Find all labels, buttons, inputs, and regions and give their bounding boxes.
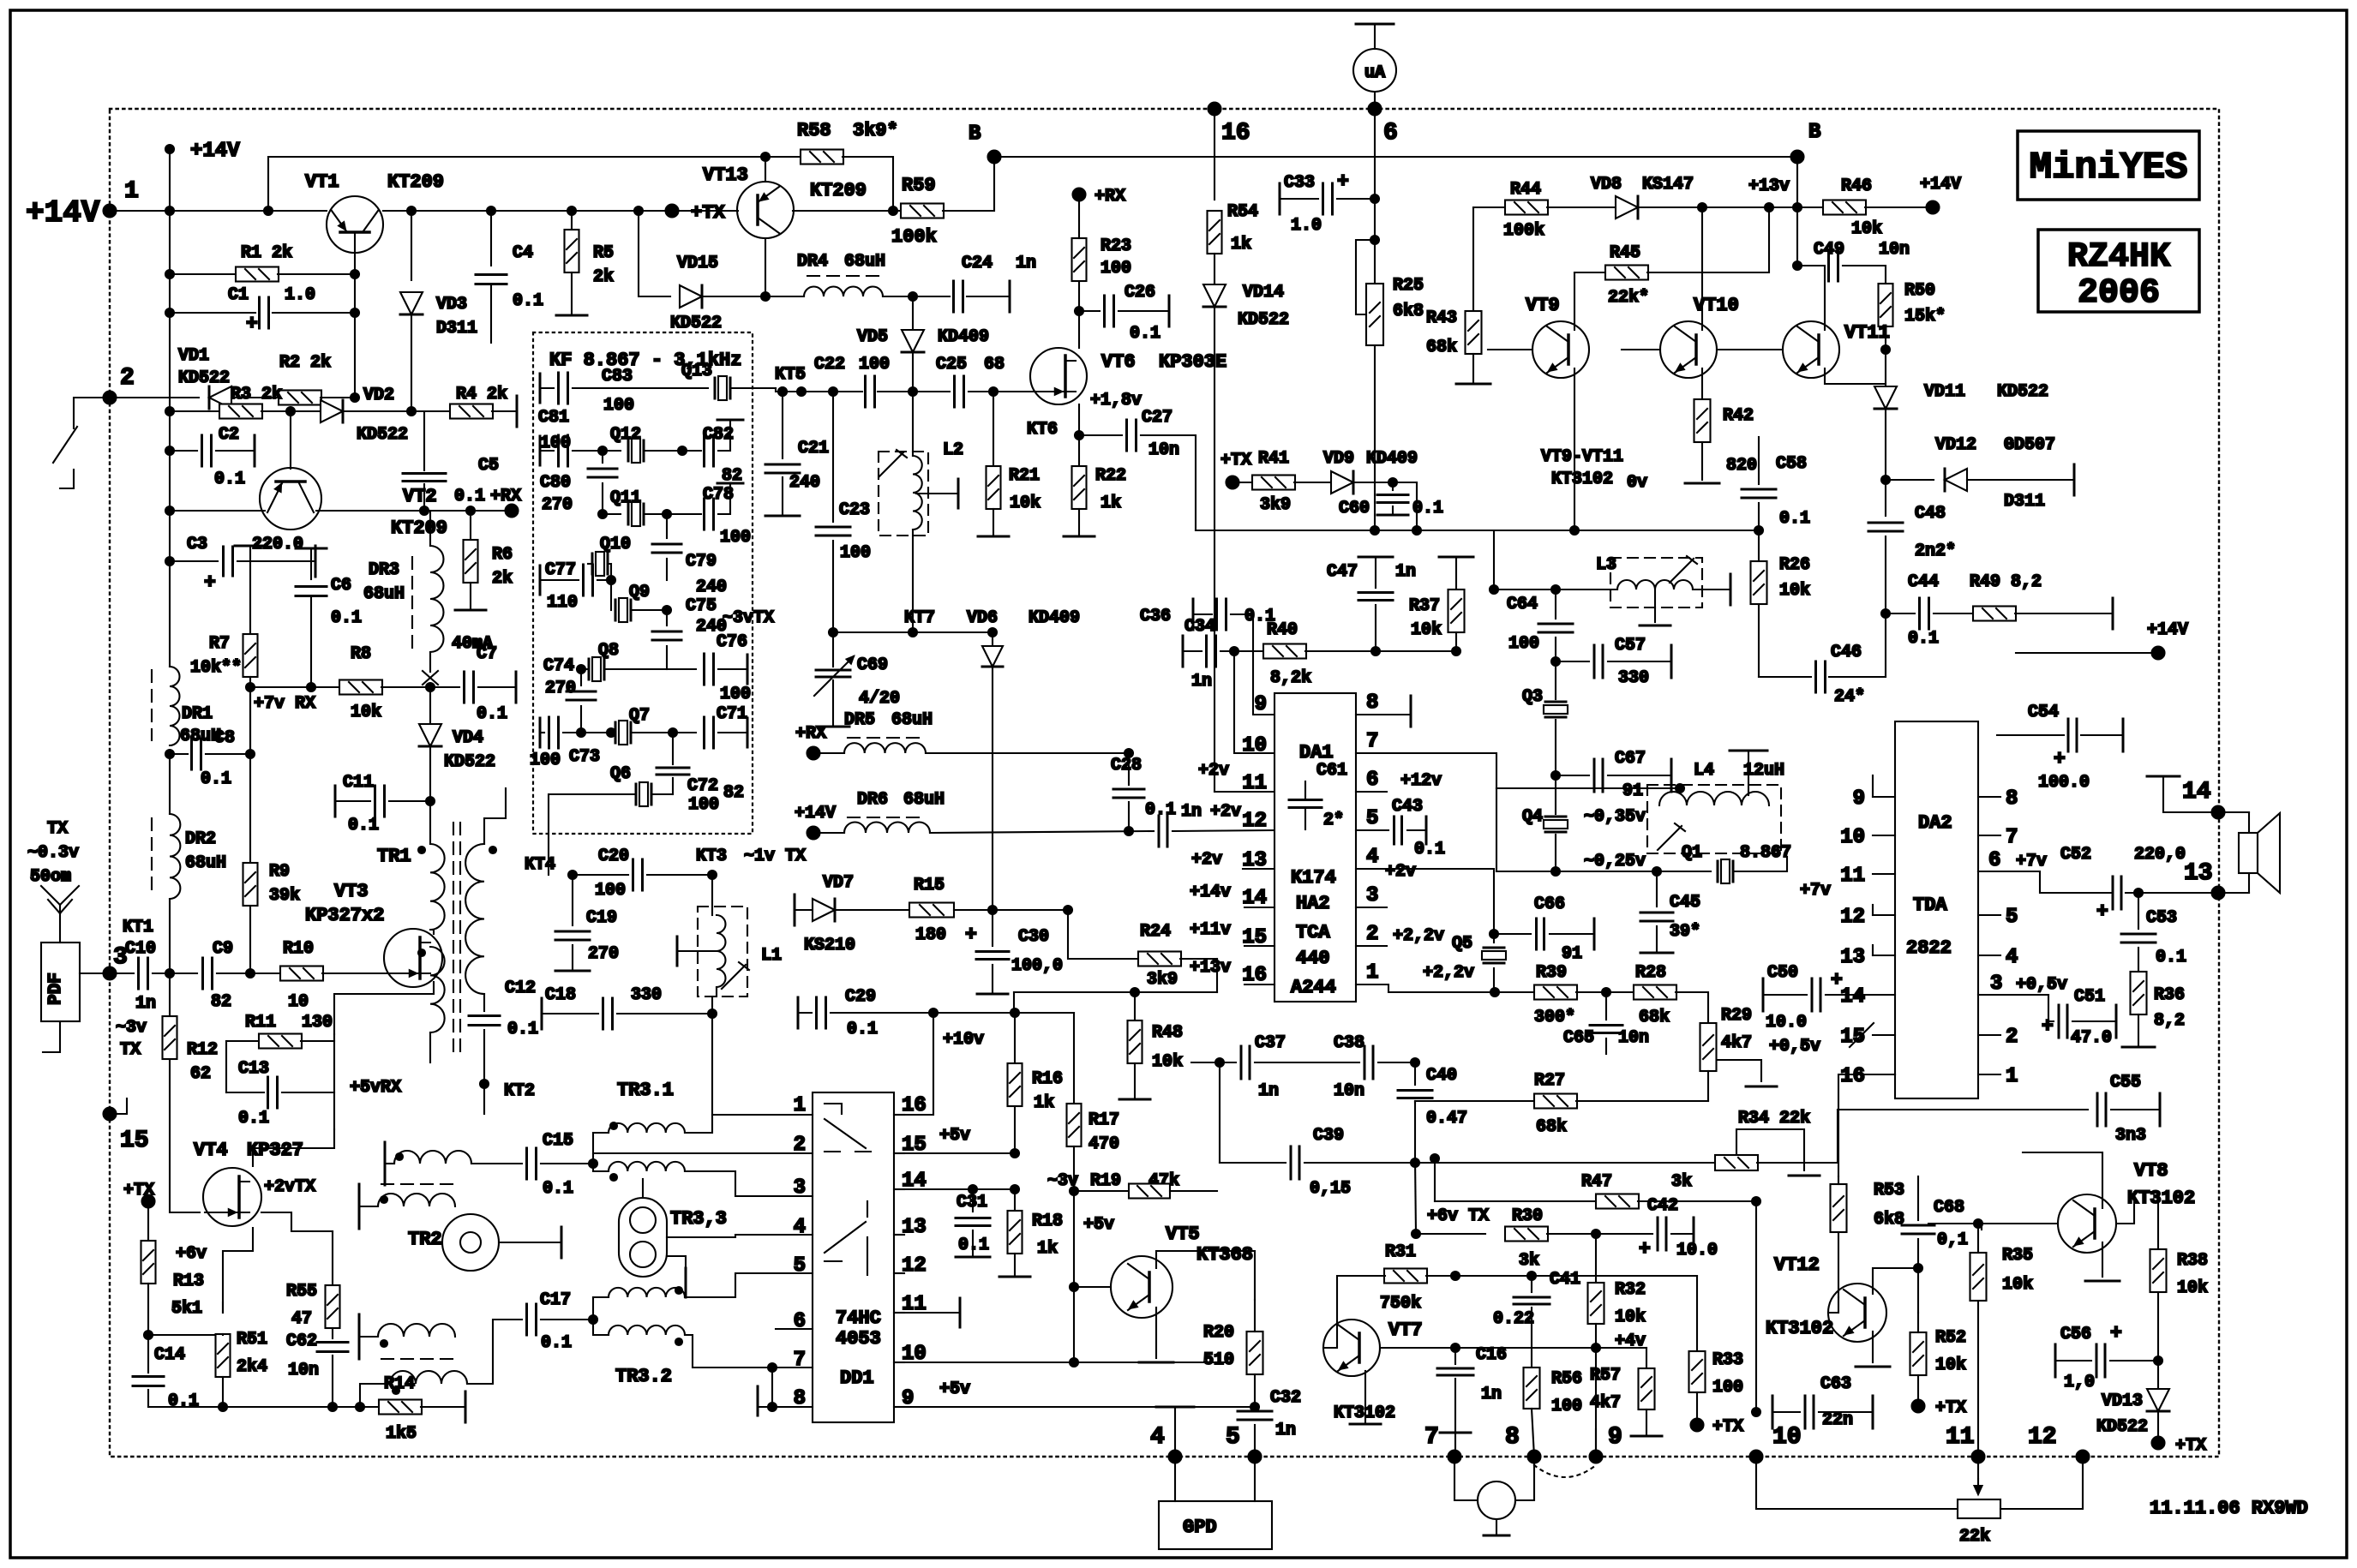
svg-text:9: 9 [1608, 1424, 1622, 1451]
svg-text:VT7: VT7 [1388, 1320, 1423, 1341]
svg-text:+11v: +11v [1190, 920, 1231, 940]
diode VD12 [1886, 479, 1934, 481]
svg-text:0.1: 0.1 [958, 1236, 989, 1255]
inductor L1 tuned [698, 907, 747, 996]
svg-text:C2: C2 [219, 425, 239, 445]
svg-text:100: 100 [1551, 1397, 1582, 1416]
svg-text:330: 330 [1618, 668, 1649, 688]
svg-text:KD409: KD409 [1029, 608, 1080, 628]
pad +TX R33 [1691, 1419, 1704, 1432]
svg-text:22n: 22n [1822, 1410, 1853, 1430]
svg-text:0.1: 0.1 [513, 291, 543, 311]
svg-text:+: + [2054, 748, 2066, 770]
svg-text:13: 13 [1840, 946, 1865, 969]
svg-text:5: 5 [1366, 807, 1378, 830]
svg-text:10k: 10k [351, 703, 381, 722]
svg-text:9: 9 [1255, 693, 1267, 716]
wire PDF ground [43, 1021, 60, 1052]
resistor R59 [893, 210, 902, 212]
svg-text:5: 5 [2006, 906, 2018, 929]
svg-text:R59: R59 [902, 175, 936, 196]
resistor R51 [148, 1334, 223, 1336]
junction C5 rail [420, 506, 429, 515]
capacitor C26 [1075, 307, 1083, 315]
svg-text:+RX: +RX [1095, 187, 1125, 206]
svg-text:L1: L1 [761, 946, 782, 966]
svg-text:6: 6 [1383, 120, 1398, 147]
svg-text:Q9: Q9 [629, 583, 650, 602]
svg-text:+14V: +14V [26, 195, 100, 230]
pad 7 [1448, 1451, 1461, 1463]
resistor R17 [1067, 1104, 1082, 1146]
wire VT11 base link [1717, 349, 1783, 350]
svg-text:0.1: 0.1 [214, 470, 245, 489]
svg-text:R6: R6 [492, 545, 513, 565]
svg-text:C28: C28 [1111, 756, 1142, 775]
wire R40 to pin10 [1234, 651, 1274, 753]
svg-text:R53: R53 [1874, 1181, 1904, 1200]
svg-text:TR3,3: TR3,3 [670, 1208, 727, 1230]
capacitor C47 [1358, 556, 1393, 559]
resistor R34 trimmer [1715, 1155, 1758, 1170]
pad 11 [1972, 1451, 1985, 1463]
svg-text:+: + [965, 924, 977, 946]
resistor R29 trimmer [1700, 1023, 1717, 1071]
svg-text:1,0: 1,0 [2064, 1373, 2095, 1392]
svg-text:0.1: 0.1 [1414, 840, 1445, 859]
crystal Q7 [611, 732, 615, 733]
svg-text:+RX: +RX [795, 724, 826, 744]
svg-text:10n: 10n [1618, 1028, 1649, 1048]
wire VT5 collector to R20 [1156, 1251, 1255, 1300]
wire KT3 column down [712, 987, 717, 1115]
svg-text:4/20: 4/20 [859, 689, 900, 709]
svg-text:R19: R19 [1090, 1171, 1121, 1191]
svg-text:+: + [1337, 171, 1349, 193]
svg-text:10k: 10k [1010, 494, 1041, 513]
svg-text:R46: R46 [1841, 177, 1872, 196]
svg-text:C74: C74 [543, 656, 574, 676]
svg-text:~3v: ~3v [116, 1018, 147, 1038]
svg-text:VD1: VD1 [178, 346, 209, 366]
wire C41R56 column top [1531, 1276, 1532, 1292]
capacitor C11 [334, 786, 337, 817]
svg-text:C52: C52 [2060, 845, 2091, 865]
svg-text:C38: C38 [1334, 1033, 1364, 1053]
capacitor C72 [672, 733, 674, 764]
capacitor C14 [144, 1331, 153, 1339]
capacitor C60 [1392, 482, 1394, 490]
wire rows link [1496, 788, 1497, 871]
svg-text:VT9: VT9 [1526, 295, 1560, 316]
svg-text:DR1: DR1 [182, 704, 213, 724]
wire pad16 column [1214, 109, 1215, 200]
wire VT8 to R38 top [2116, 1192, 2158, 1224]
wire VT6 source down [1078, 404, 1080, 435]
crystal Q5 [1493, 934, 1495, 943]
svg-text:1n: 1n [1275, 1421, 1296, 1440]
svg-text:+7v: +7v [2016, 852, 2047, 871]
crystal Q8 [577, 665, 585, 673]
svg-text:4: 4 [1150, 1424, 1165, 1451]
svg-text:C71: C71 [717, 704, 747, 724]
pad 12 [2077, 1451, 2090, 1463]
svg-text:VD11: VD11 [1924, 382, 1965, 402]
svg-text:B: B [1808, 121, 1820, 144]
svg-text:R32: R32 [1615, 1280, 1646, 1300]
wire TR3.1 lower right to pin3 [685, 1171, 813, 1196]
wire x200 column [169, 211, 171, 561]
wire VT8 emitter [2102, 1242, 2103, 1277]
svg-text:C12: C12 [505, 979, 536, 998]
svg-text:12: 12 [2028, 1424, 2057, 1451]
resistor R36 [2131, 972, 2147, 1014]
svg-text:C15: C15 [543, 1131, 573, 1151]
wire VT11 emitter to VD11 [1825, 368, 1886, 384]
svg-text:VT13: VT13 [703, 165, 748, 186]
svg-text:0.1: 0.1 [1145, 800, 1176, 820]
wire R11 C13 right column +5vRX [333, 1034, 335, 1129]
capacitor C52 [2113, 877, 2121, 909]
wire pin2 long [593, 1152, 813, 1154]
svg-text:5: 5 [794, 1254, 806, 1278]
node B right [1791, 151, 1804, 164]
svg-text:13: 13 [2184, 860, 2213, 887]
svg-text:R58: R58 [797, 120, 831, 141]
svg-text:1n: 1n [135, 994, 156, 1014]
capacitor C34 [1182, 636, 1184, 667]
svg-text:~0,35v: ~0,35v [1584, 807, 1646, 827]
TX key switch [74, 398, 110, 428]
svg-text:TCA: TCA [1296, 922, 1330, 943]
svg-text:C79: C79 [686, 552, 717, 572]
wire C64 node [1493, 530, 1495, 589]
svg-text:R37: R37 [1409, 596, 1440, 616]
capacitor C63 [1772, 1396, 1774, 1428]
capacitor C15 [527, 1148, 537, 1179]
svg-text:DD1: DD1 [840, 1368, 874, 1389]
svg-text:KD409: KD409 [1366, 449, 1418, 469]
svg-text:10: 10 [1772, 1424, 1802, 1451]
inductor L4 tuned [1647, 785, 1781, 853]
svg-text:300*: 300* [1534, 1008, 1575, 1027]
svg-text:DR3: DR3 [369, 560, 399, 580]
wire VD9 to bus [1393, 482, 1417, 530]
svg-text:+TX: +TX [123, 1181, 154, 1200]
svg-text:+5vRX: +5vRX [350, 1078, 401, 1098]
svg-text:C7: C7 [477, 644, 497, 664]
svg-text:3n3: 3n3 [2115, 1126, 2146, 1146]
resistor R7 [235, 545, 266, 548]
pad +14V right [1927, 201, 1940, 214]
svg-text:C34: C34 [1184, 617, 1215, 637]
wire DA1 pin16 [1244, 984, 1274, 985]
svg-text:R17: R17 [1089, 1110, 1119, 1130]
svg-text:R31: R31 [1385, 1242, 1416, 1262]
wire VT13 top to bus [765, 157, 766, 182]
svg-text:0.1: 0.1 [2156, 948, 2186, 967]
capacitor C51 [2048, 995, 2054, 1021]
svg-text:5k1: 5k1 [171, 1299, 202, 1319]
svg-text:C20: C20 [598, 847, 629, 866]
svg-text:1: 1 [794, 1094, 806, 1117]
svg-text:10n: 10n [288, 1361, 319, 1380]
svg-text:10n: 10n [1149, 440, 1179, 460]
capacitor C54 [1997, 734, 2064, 736]
svg-text:R49 8,2: R49 8,2 [1970, 572, 2042, 592]
wire VT7 collector row [1380, 1347, 1646, 1349]
svg-text:0,15: 0,15 [1310, 1179, 1351, 1199]
capacitor C24 [913, 296, 950, 297]
wire pin9 +5v [894, 1406, 1255, 1408]
capacitor C48 [1885, 480, 1886, 516]
svg-text:+14V: +14V [795, 804, 836, 823]
pad 5 [1249, 1451, 1262, 1463]
svg-text:C23: C23 [839, 500, 870, 520]
wire PDF to pad3 [80, 973, 134, 974]
svg-text:+6v: +6v [176, 1244, 207, 1264]
svg-text:VD15: VD15 [677, 254, 718, 273]
svg-text:PDF: PDF [46, 973, 66, 1005]
inductor L3 tuned [1610, 558, 1702, 607]
pad 8 [1528, 1451, 1541, 1463]
node +TX pad VT4 [142, 1195, 155, 1208]
svg-text:14: 14 [902, 1170, 927, 1193]
capacitor C71 [705, 717, 714, 748]
svg-text:100.0: 100.0 [2038, 773, 2090, 793]
resistor R20 [1247, 1332, 1263, 1374]
wire VT6 drain up [1078, 311, 1080, 348]
pad 2 [104, 392, 117, 404]
svg-text:0.1: 0.1 [331, 608, 362, 628]
svg-text:C50: C50 [1767, 963, 1798, 983]
resistor R56 [1524, 1368, 1540, 1409]
svg-text:100: 100 [1508, 634, 1539, 654]
svg-text:+RX: +RX [490, 487, 521, 506]
transistor VT7 [1323, 1320, 1380, 1376]
svg-text:TDA: TDA [1913, 895, 1947, 916]
svg-text:3: 3 [794, 1176, 806, 1200]
svg-text:7: 7 [794, 1349, 806, 1372]
wire VT4 gate2 [261, 1212, 333, 1231]
resistor R9 [243, 863, 258, 906]
inductor DR4 68uH [765, 296, 804, 297]
svg-text:R45: R45 [1610, 243, 1640, 263]
resistor R19 [1074, 1190, 1129, 1192]
capacitor C39 row [1220, 1162, 1286, 1164]
svg-text:R9: R9 [269, 862, 290, 882]
svg-text:R24: R24 [1140, 922, 1171, 942]
resistor R41 [1232, 482, 1253, 483]
resistor R33 [1696, 1276, 1698, 1351]
wire VT4 drain up [253, 1129, 334, 1166]
svg-text:68uH: 68uH [363, 584, 405, 604]
svg-text:R22: R22 [1095, 466, 1126, 486]
capacitor C76 [705, 654, 714, 685]
pad 10 [1750, 1451, 1763, 1463]
capacitor C21 [782, 392, 783, 458]
svg-text:C51: C51 [2074, 987, 2105, 1007]
svg-text:+14v: +14v [1190, 883, 1231, 902]
svg-text:~0.3v: ~0.3v [27, 843, 79, 863]
wire TR3,3 to pin4 [667, 1235, 813, 1237]
capacitor C64 [1555, 589, 1556, 619]
svg-text:270: 270 [588, 944, 619, 964]
svg-text:R52: R52 [1935, 1328, 1966, 1348]
svg-text:+2,2v: +2,2v [1393, 926, 1444, 946]
svg-text:R13: R13 [173, 1272, 204, 1291]
capacitor C83 [539, 374, 542, 403]
capacitor C28 [1128, 753, 1130, 785]
svg-text:0.1: 0.1 [543, 1179, 573, 1199]
svg-text:KT3102: KT3102 [1766, 1318, 1833, 1339]
svg-text:10k: 10k [1615, 1308, 1646, 1327]
svg-text:62: 62 [190, 1064, 211, 1084]
svg-text:4053: 4053 [836, 1328, 881, 1350]
svg-text:R1 2k: R1 2k [241, 243, 292, 263]
resistor R22 [1078, 435, 1080, 467]
svg-text:+7v RX: +7v RX [254, 694, 315, 714]
svg-text:74HC: 74HC [836, 1308, 881, 1329]
svg-text:C1: C1 [228, 285, 249, 305]
wire R50 to VD11 column [1885, 350, 1886, 386]
capacitor C25 [955, 376, 964, 407]
wire R24 right down [1216, 959, 1218, 992]
~3vTX row [833, 631, 993, 633]
svg-text:C72: C72 [687, 776, 718, 796]
svg-text:VD12: VD12 [1935, 435, 1976, 455]
pad 9 [1590, 1451, 1603, 1463]
capacitor C9 [203, 958, 213, 989]
svg-text:2: 2 [2006, 1026, 2018, 1049]
svg-text:VD13: VD13 [2102, 1391, 2143, 1411]
resistor R12 [169, 973, 171, 1016]
svg-text:+4v: +4v [1615, 1332, 1646, 1351]
svg-text:+2vTX: +2vTX [264, 1177, 315, 1197]
svg-text:+5v: +5v [1083, 1215, 1114, 1235]
wire +14V rail [110, 210, 327, 212]
svg-text:0.1: 0.1 [454, 487, 485, 506]
wire R51 bottom row [222, 1377, 224, 1407]
svg-text:1n: 1n [1016, 254, 1036, 273]
resistor R2 [279, 391, 321, 405]
capacitor C68 [1917, 1176, 1919, 1220]
svg-text:VD2: VD2 [363, 386, 394, 405]
svg-text:10.0: 10.0 [1676, 1241, 1718, 1260]
svg-text:R3 2k: R3 2k [231, 385, 282, 404]
svg-text:VD6: VD6 [967, 608, 998, 628]
wire R34 to C55 column [1837, 1110, 1838, 1163]
svg-text:C29: C29 [845, 987, 876, 1007]
svg-text:C24: C24 [962, 254, 993, 273]
wire pad14 terminal [2163, 778, 2218, 812]
capacitor C44 / R49 row [1886, 613, 1915, 614]
transistor VT6 KP303E [1030, 348, 1087, 404]
capacitor C10 [139, 958, 148, 989]
resistor R42 [1694, 399, 1711, 442]
capacitor C30 [992, 910, 993, 946]
svg-text:R16: R16 [1032, 1069, 1063, 1089]
svg-text:8.867: 8.867 [1740, 843, 1791, 863]
svg-text:VT5: VT5 [1166, 1224, 1200, 1245]
capacitor C33 [1279, 183, 1281, 214]
node B left [988, 151, 1001, 164]
svg-text:C10: C10 [125, 939, 156, 959]
svg-text:1k5: 1k5 [386, 1424, 417, 1444]
svg-text:15: 15 [120, 1128, 149, 1154]
wire C36 to pin9 [1192, 599, 1195, 630]
wire left column to DR1 [169, 561, 171, 667]
svg-text:C32: C32 [1270, 1388, 1301, 1408]
svg-text:0.1: 0.1 [507, 1020, 538, 1039]
svg-text:4k7: 4k7 [1721, 1033, 1752, 1053]
svg-text:2006: 2006 [2078, 274, 2160, 313]
wire pads to GPD [1174, 1457, 1176, 1501]
svg-text:C45: C45 [1670, 893, 1700, 913]
svg-text:R8: R8 [351, 644, 371, 664]
capacitor C55 row [1838, 1109, 2088, 1110]
inductor DR1 68uH [170, 667, 180, 745]
svg-text:C78: C78 [703, 485, 734, 505]
svg-text:KT4: KT4 [525, 855, 555, 875]
svg-text:240: 240 [696, 578, 727, 597]
svg-text:C37: C37 [1255, 1033, 1286, 1053]
svg-text:uA: uA [1364, 63, 1385, 83]
capacitor C18 [541, 998, 543, 1029]
diode VD11 [1874, 386, 1897, 409]
pad 13 [2212, 887, 2225, 900]
svg-text:C26: C26 [1125, 283, 1155, 302]
DA1 pin5 C43 [1356, 829, 1388, 831]
resistor R46 [1797, 206, 1824, 208]
svg-text:22k*: 22k* [1608, 288, 1649, 308]
svg-text:R54: R54 [1227, 202, 1258, 222]
wire VT3 drain [430, 930, 434, 934]
capacitor C73 [539, 718, 542, 747]
svg-text:6: 6 [794, 1310, 806, 1333]
wire pad9 column [1595, 1348, 1597, 1457]
wire +14V drop [169, 149, 171, 211]
wire TR3,3 stub [667, 1256, 686, 1268]
svg-text:Q13: Q13 [681, 362, 712, 381]
svg-text:0v: 0v [1627, 473, 1647, 493]
resistor R10 [280, 967, 323, 981]
svg-text:C55: C55 [2110, 1073, 2141, 1092]
svg-text:R33: R33 [1712, 1350, 1743, 1370]
svg-text:0.1: 0.1 [1244, 607, 1275, 626]
svg-text:10k: 10k [1935, 1356, 1966, 1375]
svg-text:R30: R30 [1512, 1206, 1543, 1226]
resistor R3 [165, 407, 174, 416]
svg-text:C30: C30 [1018, 927, 1049, 947]
svg-text:C25: C25 [936, 355, 967, 374]
svg-text:68uH: 68uH [844, 252, 885, 272]
resistor R6 [470, 511, 471, 540]
wire VT10 base link [1622, 349, 1660, 350]
svg-text:C81: C81 [538, 408, 569, 428]
svg-text:VD3: VD3 [436, 295, 467, 314]
svg-text:0.1: 0.1 [477, 704, 507, 724]
wire VT4 source to R51 [223, 1228, 253, 1313]
svg-text:+2v: +2v [1191, 850, 1222, 870]
svg-text:100k: 100k [1503, 221, 1544, 241]
svg-text:~1v TX: ~1v TX [744, 847, 806, 866]
svg-text:0.1: 0.1 [238, 1109, 269, 1128]
capacitor C62 [317, 1343, 348, 1352]
wire pin6 to C52 [1978, 871, 2112, 893]
svg-text:8,2: 8,2 [2154, 1011, 2185, 1031]
svg-text:3: 3 [1990, 973, 2002, 996]
